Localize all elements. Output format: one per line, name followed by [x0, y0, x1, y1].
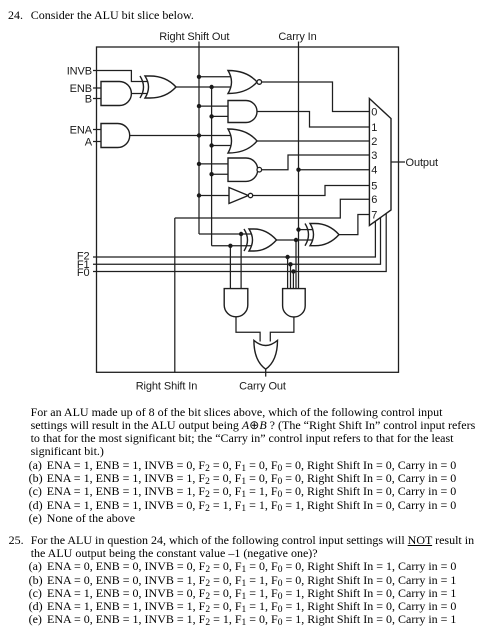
pin 5 of U1: [371, 180, 377, 192]
wire G9 output to XOR G10 lower input: [277, 239, 314, 241]
svg-text:Right Shift Out: Right Shift Out: [159, 31, 229, 43]
node A (label): [85, 136, 93, 148]
Question 24 header: [8, 9, 23, 21]
wire B net to AND G5 lower input: [212, 115, 228, 117]
node ENB (label): [70, 83, 92, 95]
wire G11 output to OR G13: [236, 317, 260, 342]
wire A to AND G3: [93, 141, 101, 143]
OR gate G6: [228, 129, 257, 153]
XOR gate G10 (sum = A xor B xor Cin): [305, 224, 339, 246]
wire Right Shift Out stub into box: [198, 42, 200, 48]
svg-text:6: 6: [371, 194, 377, 206]
AND gate G1 (ENB AND B): [101, 82, 131, 106]
svg-text:3: 3: [371, 150, 377, 162]
pin 2 of U1: [371, 136, 377, 148]
svg-text:7: 7: [371, 209, 377, 221]
junction dot A net / NAND G7 input: [197, 162, 201, 166]
svg-text:Right Shift In: Right Shift In: [136, 381, 198, 393]
wire B net vertical bus: [211, 87, 213, 246]
wire A net to AND G5 upper input: [199, 105, 228, 107]
svg-text:0: 0: [371, 106, 377, 118]
wire G9 output tap down to AND G12 input: [295, 240, 297, 289]
junction dot B tap at XOR G9 input: [228, 244, 232, 248]
wire INVB to XOR G2 upper input: [93, 71, 148, 82]
wire G12 output to OR G13: [270, 317, 294, 342]
CIRCUIT SCHEMATIC: [0, 0, 488, 400]
pin 7 of U1: [371, 209, 377, 221]
junction dot A net / NOR input: [197, 75, 201, 79]
svg-text:Carry Out: Carry Out: [239, 381, 286, 393]
node Carry Out (label): [239, 381, 286, 393]
junction dot B net / G2 output: [209, 85, 213, 89]
AND gate G12 (carry propagate): [283, 289, 306, 317]
junction dot G9 output tap: [294, 238, 298, 242]
svg-text:F0: F0: [77, 267, 90, 279]
wire F0 tap down to AND G12 input: [292, 272, 294, 289]
pin 6 of U1: [371, 194, 377, 206]
svg-text:B: B: [85, 93, 92, 105]
wire U1 output through border: [391, 161, 405, 163]
wire Carry In branch to XOR G10 upper input: [299, 229, 314, 231]
node Output (label): [406, 157, 438, 169]
wire A net to NOR G4 upper input: [199, 76, 232, 78]
node F2 (label): [77, 251, 90, 263]
wire G13 output through border (Carry Out): [265, 369, 267, 376]
AND gate G5: [228, 101, 257, 123]
AND gate G11 (A AND B carry generate): [224, 289, 248, 317]
wire G5 output to mux U1 input 1: [257, 112, 369, 128]
pin 3 of U1: [371, 150, 377, 162]
wire B net to OR G6 lower input: [212, 145, 232, 147]
junction dot B net / NAND G7 input: [209, 172, 213, 176]
node Carry In (label): [278, 31, 316, 43]
junction dot A net / G3 output: [197, 133, 201, 137]
junction dot F0 tap: [291, 269, 295, 273]
enclosing bit-slice box: [97, 47, 399, 372]
wire Right Shift In vertical from bottom border: [174, 218, 176, 372]
wire Carry In branch to mux U1 input 4: [299, 169, 370, 171]
node F1 (label): [77, 259, 90, 271]
junction dot F1 tap: [288, 262, 292, 266]
svg-text:5: 5: [371, 180, 377, 192]
wire A net to NAND G7 upper input: [199, 163, 228, 165]
node Right Shift Out (label): [159, 31, 229, 43]
wire A tap down to AND G11 input: [240, 234, 242, 289]
wire Carry In stub into box: [298, 42, 300, 48]
pin 0 of U1: [371, 106, 377, 118]
wire F1 tap down to AND G12 input: [290, 264, 292, 288]
wire F1 select line to mux U1 select: [93, 218, 381, 265]
Question 24 body: [31, 406, 443, 418]
mux U1 (8-to-1 multiplexer): [369, 99, 391, 226]
svg-text:1: 1: [371, 122, 377, 134]
wire ENA to AND G3: [93, 129, 101, 131]
pin 1 of U1: [371, 122, 377, 134]
svg-text:2: 2: [371, 136, 377, 148]
wire F2 tap down to AND G12 input: [287, 257, 289, 289]
junction dot A tap at XOR G9 input: [239, 232, 243, 236]
node B (label): [85, 93, 92, 105]
wire F0 select line to mux U1 select: [93, 213, 386, 271]
node ENA (label): [70, 124, 93, 136]
XOR gate G9 (half sum A xor B): [244, 229, 277, 251]
wire G2 output (gated B net) to NOR G4 lower input: [176, 86, 232, 88]
wire B net to NAND G7 lower input: [212, 173, 228, 175]
wire G7 output to mux U1 input 3: [262, 155, 370, 170]
wire G4 output to mux U1 input 0: [262, 82, 370, 112]
svg-text:Output: Output: [406, 157, 438, 169]
junction dot A net / AND G5 input: [197, 104, 201, 108]
node INVB (label): [67, 65, 92, 77]
AND gate G3 (ENA AND A): [101, 124, 130, 148]
wire A net to inverter G8 input: [199, 195, 229, 197]
wire F2 select line to mux U1 select: [93, 221, 375, 257]
wire B tap down to AND G11 input: [229, 246, 231, 289]
wire A net end to XOR G9 upper input: [199, 233, 252, 235]
wire G6 output to mux U1 input 2: [257, 140, 369, 142]
pin 4 of U1: [371, 165, 377, 177]
wire G3 output (A net) to OR G6 upper input: [130, 135, 232, 137]
wire B to AND G1: [93, 98, 101, 100]
junction dot Carry In / XOR G10 input: [296, 227, 300, 231]
wire A net vertical bus (Right Shift Out line): [198, 47, 200, 234]
svg-text:ENA: ENA: [70, 124, 93, 136]
Question 25: [9, 534, 24, 546]
svg-text:Carry In: Carry In: [278, 31, 316, 43]
svg-text:A: A: [85, 136, 93, 148]
wire ENB to AND G1: [93, 87, 101, 89]
NOR gate G4: [228, 71, 262, 94]
NAND gate G7: [228, 158, 262, 181]
wire G8 output to mux U1 input 5: [253, 186, 370, 196]
junction dot B net / OR G6 input: [209, 143, 213, 147]
XOR gate G2 (B xor INVB): [140, 76, 176, 98]
junction dot B net / AND G5 input: [209, 114, 213, 118]
junction dot Carry In / mux input 4: [296, 168, 300, 172]
wire G10 output to mux U1 input 7: [339, 215, 369, 235]
node Right Shift In (label): [136, 381, 198, 393]
wire B net end to XOR G9 lower input: [212, 245, 252, 247]
junction dot A net / inverter G8 input: [197, 193, 201, 197]
wire Carry In vertical bus: [298, 47, 300, 289]
inverter G8: [229, 188, 253, 204]
junction dot F2 tap: [285, 255, 289, 259]
node F0 (label): [77, 267, 90, 279]
wire G1 output to XOR G2 lower input: [131, 93, 148, 95]
wire Right Shift In line to mux U1 input 6: [175, 199, 370, 218]
OR gate G13 (carry out): [254, 340, 278, 369]
svg-text:4: 4: [371, 165, 377, 177]
svg-text:INVB: INVB: [67, 65, 92, 77]
